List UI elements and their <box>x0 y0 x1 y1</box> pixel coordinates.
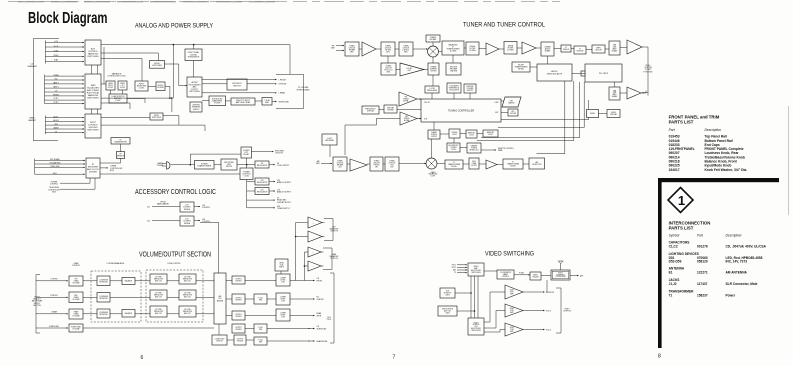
wire driver to controller <box>397 109 421 111</box>
wire ps3-ps4 <box>477 133 483 135</box>
block AM TUNED CIRCUIT RF <box>333 157 347 171</box>
dashed group tone control <box>146 270 203 322</box>
wire am output to bracket <box>641 91 646 93</box>
amplifier am tri2 <box>486 160 497 169</box>
svg-text:MEDIAFILTER10.7MHz: MEDIAFILTER10.7MHz <box>507 44 514 51</box>
block VIDEO SOURCE SWITCHING <box>468 318 484 335</box>
block TUNING CONTROLLER <box>421 99 501 122</box>
wire od2-pr2 <box>245 298 254 300</box>
block MEMORY LOGIC 1 <box>466 130 477 138</box>
wire tall-od2 <box>226 298 232 300</box>
svg-text:R 100PRE: R 100PRE <box>258 327 262 331</box>
block L-CON PRESCALER <box>425 86 439 93</box>
wire tri1-t2 <box>376 48 381 50</box>
wire fe-losc <box>396 69 400 71</box>
input wire g1-1 <box>45 46 84 48</box>
block TONE R1 <box>179 274 196 284</box>
svg-text:VCR 2: VCR 2 <box>546 330 551 332</box>
wire tall to compound <box>218 324 220 335</box>
block FILTER TRANSFORMER DETAIL <box>512 62 530 72</box>
wire ps2-ps3 <box>460 133 466 135</box>
svg-text:PHASESTATUSKEYER: PHASESTATUSKEYER <box>431 131 438 138</box>
input wire g2-1 <box>45 79 85 81</box>
connector B1-B2 left <box>91 65 93 74</box>
local oscillator triangle <box>400 63 424 76</box>
staircase wire 3 <box>481 82 580 138</box>
svg-text:LOUDNESSNETWORK: LOUDNESSNETWORK <box>99 296 108 300</box>
amplifier big tri1 <box>627 40 642 54</box>
staircase wire 4 <box>477 81 574 141</box>
block TONE R3 <box>179 306 196 317</box>
wire lab down to demod <box>547 56 549 64</box>
staircase wire 1 <box>501 100 589 119</box>
block TUNING LOGIC <box>449 129 460 138</box>
wire 15V branch <box>247 190 255 192</box>
block CASS DECK LOGIC <box>106 81 115 90</box>
wire t1-tri1 <box>359 48 362 50</box>
svg-text:L FRONT: L FRONT <box>50 279 57 281</box>
wire t2 down <box>387 56 389 63</box>
block tiny coupler <box>581 71 585 76</box>
wire sab2-btri2 <box>620 92 627 94</box>
wire t6-tri3 <box>517 47 522 49</box>
wire ifdisplay-uhf <box>586 49 592 51</box>
wire od4 chain <box>245 328 310 330</box>
wire am1-amtri <box>347 163 350 165</box>
svg-text:LEVEL: LEVEL <box>590 113 595 115</box>
block R100 PRE 2 <box>254 294 267 304</box>
group2 bracket <box>44 75 46 104</box>
svg-text:OUTPUTDRIVER: OUTPUTDRIVER <box>235 314 242 318</box>
block LEVEL VCM SMPS <box>275 259 288 271</box>
block VIDEO UPDATE <box>530 272 541 280</box>
switch block B1 AUX CONTROL <box>85 40 101 65</box>
block SURROUND BANDPASS FILTER <box>209 96 226 106</box>
block OUTPUT DRIVER 2 <box>232 294 245 304</box>
block MONO SOUND <box>156 82 165 91</box>
diamond marker 1 <box>668 188 693 213</box>
B4 input wire 3 <box>35 173 85 175</box>
wire ifshield-ifdisplay <box>571 48 574 50</box>
junction vcr monitor <box>470 292 472 294</box>
block B4 IR RECEIVER CLOCK <box>86 158 100 178</box>
block TONE L3 <box>150 306 167 317</box>
wire controller bus into B4 <box>60 178 95 189</box>
input wire g2-4 <box>45 91 85 93</box>
wire pbk down to prescaler <box>432 75 434 86</box>
input wire g3-4 <box>45 132 84 134</box>
wire interface down <box>546 280 548 292</box>
block FREQUENCY DISPLAY <box>362 106 379 114</box>
wire video vertical 1 <box>470 276 472 318</box>
wire aif2-adet <box>523 163 529 165</box>
block LEVEL <box>587 110 599 118</box>
block LOUDNESS 3 <box>97 309 110 318</box>
thick divider bar vertical <box>658 178 662 348</box>
svg-text:RIGHT TP DECKAMP LINE DELAY: RIGHT TP DECKAMP LINE DELAY <box>236 100 251 104</box>
block CENTER SPEAKER SHIELD <box>190 102 202 112</box>
svg-text:HEADPHONE: HEADPHONE <box>317 340 329 343</box>
block READER POWER INTERLOCK <box>467 143 481 153</box>
block DISPLAY POWER SUPPLY <box>464 84 476 93</box>
wire cass deck down <box>110 90 112 94</box>
wire rpi out <box>481 149 496 151</box>
junction balanced 1 <box>295 236 297 238</box>
block LINEAR AUDIO BLANK <box>541 42 554 56</box>
video input wire 1 <box>457 266 467 268</box>
wire loop antenna down <box>329 145 331 157</box>
right page edge line <box>788 106 790 215</box>
input wire g2-5 <box>45 95 85 97</box>
wire variation out <box>127 99 145 104</box>
wire plug to transformer <box>171 164 195 166</box>
svg-text:L REAR: L REAR <box>51 311 58 314</box>
block POWER OUT RELAY <box>241 147 252 158</box>
block CASS 1+2 LOGIC <box>118 81 127 90</box>
block KEY DIODES <box>508 109 518 116</box>
volume row1 wires <box>83 280 214 282</box>
video outputs bracket <box>556 288 561 333</box>
svg-text:LOUDNESSNETWORK: LOUDNESSNETWORK <box>99 279 108 283</box>
amplifier tri3 <box>522 42 536 54</box>
svg-text:PLL MPX: PLL MPX <box>599 73 609 75</box>
wire IR transmitter to sensor <box>120 144 122 152</box>
wire pll down to sab2 <box>614 82 616 87</box>
wire tri1 out <box>523 291 545 293</box>
wire tri to controller 2 <box>417 118 421 120</box>
svg-text:VCR 1: VCR 1 <box>546 311 551 313</box>
junction plug wire <box>190 164 192 166</box>
svg-text:TO VOLUMESUPER BOARD: TO VOLUMESUPER BOARD <box>296 87 310 91</box>
svg-text:SURROUND: SURROUND <box>279 101 290 103</box>
wire atri-aif2 <box>497 164 503 166</box>
input wire g2-6 <box>45 99 85 101</box>
svg-text:OUTPUTDRIVER: OUTPUTDRIVER <box>235 298 242 302</box>
staircase wire 2 <box>498 82 584 128</box>
svg-text:OSC AM/FMREFERENCEOSCILLATOR: OSC AM/FMREFERENCEOSCILLATOR <box>449 85 460 92</box>
wire od3-vcm3 <box>245 315 276 317</box>
svg-text:VIDEOUPDATE: VIDEOUPDATE <box>532 275 538 279</box>
wire mixer down to pbk <box>432 57 434 63</box>
wire 5V out <box>247 199 275 201</box>
svg-text:OSC IN: OSC IN <box>424 102 430 104</box>
arrowhead headphone out <box>308 340 315 342</box>
key matrix parallelogram <box>502 97 521 107</box>
block 15V DOWN SENSE <box>180 216 194 226</box>
block INPUT REGISTER LOGIC <box>135 81 148 91</box>
svg-text:L REAR: L REAR <box>279 92 286 95</box>
block 12V DOWN SENSE <box>180 202 194 212</box>
block SURROUND VOLUME <box>69 324 83 332</box>
volume row2 wires <box>83 296 214 298</box>
wire out R FRONT <box>247 83 277 85</box>
block COLORIZATION SMART CONTROL <box>497 270 514 279</box>
wire t4 down to het <box>452 55 454 63</box>
junction B1 branch <box>173 44 175 46</box>
block SIDE CERA FILTER <box>469 158 479 169</box>
wire out L/R FRONT <box>290 280 315 282</box>
block AMP LINE DELAY <box>231 98 255 105</box>
block TUNED CIRCUIT FE <box>381 63 396 75</box>
wire delay to bbd <box>255 100 262 102</box>
block BALANCE 1 <box>122 278 135 285</box>
block THE SUB AMP BLANK 2 <box>609 87 620 100</box>
wire mono sound out <box>165 86 170 98</box>
video input wire 3 <box>457 272 467 274</box>
svg-text:C21: C21 <box>147 206 150 208</box>
block AFTER PROCESSING OUTPUT SWITCHING <box>187 77 202 97</box>
wire apl-rpi <box>460 147 467 149</box>
bracket to volume board <box>276 74 304 108</box>
block TUNED CIRCUIT DETECTOR <box>399 42 413 56</box>
wire B3 out lower <box>101 125 205 131</box>
block LOWER LEVEL VCM 3 <box>276 309 290 321</box>
block 455 FILTER <box>466 42 479 55</box>
block COMPOUND SWITCH <box>212 335 227 345</box>
wire mixer2-aif1 <box>437 163 445 165</box>
block IF DISPLAY <box>574 46 586 54</box>
wire tri to controller 1 <box>417 98 421 100</box>
svg-text:8: 8 <box>658 354 661 360</box>
display buffer tri2 <box>400 112 417 125</box>
wire vamp to colorization <box>484 270 497 272</box>
svg-text:ANALOG AND POWER SUPPLY: ANALOG AND POWER SUPPLY <box>135 23 214 30</box>
block T SUB BBD <box>262 98 272 106</box>
block DISPLAY DRIVER <box>384 105 397 113</box>
top edge dashed scan line <box>8 1 560 3</box>
dashed group loudness/balance <box>91 271 141 322</box>
wire IR sensor down <box>100 159 121 164</box>
video amp tri MONITOR <box>505 285 523 299</box>
wire accessory to tall box <box>200 222 219 273</box>
svg-text:Block Diagram: Block Diagram <box>28 10 108 27</box>
volume input wire 2 <box>36 313 68 315</box>
block ACCESSORY POWER LOGIC <box>447 143 460 152</box>
wire colorization to update <box>514 274 530 276</box>
block CROSSFTL SWITCH <box>227 79 247 90</box>
block REAR CHAN VOLUME <box>69 309 83 319</box>
block OUTPUT DRIVER 5 <box>234 335 246 345</box>
wire power bus vertical <box>246 158 248 208</box>
block AM DETECTOR <box>529 158 545 169</box>
block BALANCE 3 <box>122 310 135 318</box>
block R CHAN VOLUME <box>69 292 83 303</box>
svg-text:SURROUND: SURROUND <box>49 326 60 328</box>
block OSC REFERENCE OSCILLATOR <box>447 83 461 93</box>
wire B2 trunk <box>101 97 172 99</box>
mixer AM circle <box>426 158 437 169</box>
svg-text:C25: C25 <box>147 220 150 222</box>
wire tri2 input <box>345 119 400 156</box>
block PHASE INV AMP <box>426 35 440 42</box>
op-amp main balanced + <box>308 247 321 257</box>
block AM TUNED CIRCUIT MIX <box>370 157 383 171</box>
wire controller to keydiodes <box>501 112 508 114</box>
wire vcms down <box>280 271 282 274</box>
connector B2-B3 right <box>97 109 99 114</box>
block VIDEO INTERFACE CONTROLLER <box>551 270 570 280</box>
block AM TUNED CIRCUIT OSC <box>385 157 399 171</box>
block MONO SWITCHES upper <box>150 61 165 69</box>
wire out REAR SPKR <box>290 315 315 317</box>
input wire g1-3 <box>45 56 84 58</box>
svg-text:MONITOR: MONITOR <box>546 292 555 294</box>
wire source to tri2 <box>484 311 505 329</box>
svg-text:LOUDNESSNETWORK: LOUDNESSNETWORK <box>99 312 108 316</box>
block 8V REGULATOR <box>255 161 269 168</box>
wire B1 out low <box>101 58 142 81</box>
wire amtri-am2 <box>367 163 370 165</box>
input wire g3-3 <box>45 128 84 130</box>
mixer FM circle <box>428 46 439 57</box>
connector B2-B3 left <box>91 109 93 114</box>
wire sab1-btri1 <box>620 47 627 49</box>
wire demod to pll <box>572 73 585 75</box>
wire 15V sense out <box>194 220 200 222</box>
svg-text:7: 7 <box>393 355 396 361</box>
wire 12V sense out <box>194 206 200 208</box>
wire B1 out mid <box>101 53 158 61</box>
svg-text:DISP: DISP <box>495 102 499 104</box>
input wire g1-2 <box>45 51 84 53</box>
main balanced bracket <box>323 248 332 270</box>
wire controller down 1 <box>433 122 435 130</box>
junction trunk b <box>169 97 171 99</box>
block TUNED CIRCUIT RF MIX <box>381 42 395 56</box>
wire crossftl in <box>202 83 227 85</box>
block OUTPUT DRIVER 1 <box>232 276 245 284</box>
wire vhs monitor join <box>457 310 475 312</box>
switch block B2 TAPE EQUALIZER <box>85 74 101 109</box>
svg-text:POWERCONTROL: POWERCONTROL <box>50 181 58 185</box>
input wire g1-4 <box>45 60 84 62</box>
block TONE R2 <box>179 290 196 300</box>
block PHASE STATUS KEYER <box>428 130 440 139</box>
input wire g2-0 <box>45 75 85 77</box>
block BALANCED IF TRANSFORMER <box>442 41 464 55</box>
block R100 PRE 5 <box>254 337 267 345</box>
svg-text:TUNING CONTROLLER: TUNING CONTROLLER <box>448 109 474 112</box>
svg-text:TONE CONTROL: TONE CONTROL <box>167 263 180 265</box>
wire variation bus vertical <box>103 47 105 84</box>
wire balanced feed 1 <box>296 223 308 281</box>
wire mono switches out <box>165 64 188 86</box>
wire uhf-sab1 <box>605 48 609 50</box>
wire fm ant 2 <box>336 50 344 52</box>
B4 output arrow <box>100 167 108 169</box>
svg-text:VOLUME/OUTPUT SECTION: VOLUME/OUTPUT SECTION <box>139 252 211 259</box>
svg-text:R FRONT: R FRONT <box>50 295 58 297</box>
wire vcr monitor join <box>455 292 471 294</box>
svg-text:ACCESSORY CONTROL LOGIC: ACCESSORY CONTROL LOGIC <box>135 189 216 196</box>
block IR TRANSMITTER <box>111 138 130 145</box>
wire relay out <box>252 151 274 153</box>
block LOAD MONITOR AMP DET <box>109 94 127 103</box>
video input wire 2 <box>457 269 467 271</box>
wire mono sound in <box>148 85 156 87</box>
volume row3 wires <box>83 313 214 315</box>
wire acf-atri <box>479 163 486 165</box>
volume input wire 3 <box>36 327 68 329</box>
svg-text:455kHzFILTER10.7MHz: 455kHzFILTER10.7MHz <box>469 46 476 52</box>
svg-text:DISPLAYPOWERSUPPLY: DISPLAYPOWERSUPPLY <box>466 85 474 92</box>
svg-text:L FRONT: L FRONT <box>279 79 288 81</box>
wire dps to controller <box>469 93 471 99</box>
wire level-leveldisplay <box>599 113 608 115</box>
op-amp front balanced + <box>308 217 322 228</box>
wire update to interface <box>541 275 551 277</box>
front balanced bracket <box>324 219 333 241</box>
input wire g3-2 <box>45 124 84 126</box>
block IF SHIELD <box>561 45 571 52</box>
wire od1-vcm1 <box>245 280 276 282</box>
block OUTPUT DRIVER 4 <box>232 324 245 333</box>
wire tri3-lab <box>536 47 541 49</box>
wire FDI to big box <box>193 61 195 78</box>
display buffer tri1 <box>399 92 417 106</box>
wire ps1-ps2 <box>440 133 449 135</box>
amplifier big tri2 <box>627 87 641 99</box>
block THE SUB AMP BLANK 1 <box>609 41 620 55</box>
wire B2 to variation bus <box>101 83 106 85</box>
input wire g3-0 <box>45 117 84 119</box>
wire out L FRONT <box>202 79 277 81</box>
wire mixer2 up <box>431 139 433 158</box>
svg-text:UHF/LCIRCUIT: UHF/LCIRCUIT <box>595 48 602 52</box>
svg-text:R 100PRE: R 100PRE <box>258 298 262 302</box>
svg-text:R 100PRE: R 100PRE <box>258 340 262 344</box>
wire oscref to controller <box>453 93 455 99</box>
wire C25 to 15V sense <box>152 220 180 222</box>
block LOWER LEVEL VCM 1 <box>276 274 290 286</box>
svg-text:6: 6 <box>141 355 144 361</box>
block AM IF TRANSFORMER 2 <box>503 159 523 169</box>
volume input bracket <box>36 275 40 334</box>
wire freq disp to driver <box>379 109 384 111</box>
wire prescaler to controller <box>431 93 433 99</box>
wire FDI feed <box>193 45 195 49</box>
wire t3-mixer <box>413 48 428 50</box>
wire am2-am3 <box>383 163 385 165</box>
block LOUDNESS 2 <box>97 293 110 303</box>
wire lab-ifshield <box>554 48 561 50</box>
junction balanced 2 <box>304 265 306 267</box>
wire C21 to 12V sense <box>152 206 180 208</box>
wire transformer to rectifier <box>214 164 221 166</box>
wire mono2 out <box>163 116 179 126</box>
junction rect out <box>246 164 248 166</box>
block FUNCTIONAL DIGITAL INTEGRATOR <box>185 49 202 61</box>
block AUDIO DEMODULATOR IC <box>537 64 572 81</box>
wire am ant in <box>321 163 332 165</box>
staircase wire 5 <box>537 81 565 154</box>
wire B4 bottom to power line <box>100 173 240 175</box>
wire bandpass to delay <box>226 100 232 102</box>
svg-text:OUTPUTDRIVER: OUTPUTDRIVER <box>235 327 242 331</box>
wire source to tri3 <box>484 330 505 333</box>
wire power control into B4 <box>60 178 90 183</box>
group1 bracket <box>44 40 46 63</box>
wire tall-od1 <box>226 280 232 282</box>
junction FDI feed <box>193 44 195 46</box>
block VCR MONITOR <box>440 288 455 298</box>
amplifier am tri <box>350 159 367 171</box>
volume surround wire <box>83 327 214 329</box>
svg-text:OUTPUTDRIVER: OUTPUTDRIVER <box>235 279 242 283</box>
wire t4-t5 <box>464 47 466 49</box>
block LOWER LEVEL VCM 2 <box>276 293 290 305</box>
wire B3 to mono2 <box>101 117 150 119</box>
